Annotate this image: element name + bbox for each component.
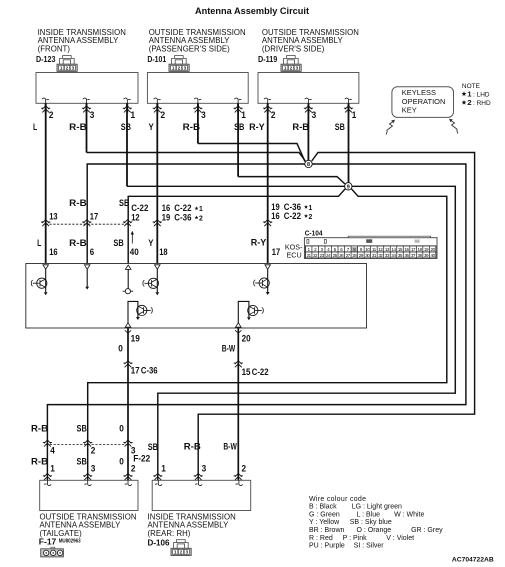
- svg-text:1: 1: [352, 110, 357, 120]
- svg-text:3: 3: [91, 463, 96, 473]
- svg-text:KEY: KEY: [402, 106, 417, 115]
- svg-text:9: 9: [347, 184, 350, 190]
- svg-text:2: 2: [242, 464, 247, 474]
- svg-text:OPERATION: OPERATION: [402, 97, 446, 106]
- svg-text:19: 19: [131, 333, 140, 343]
- svg-text:G : Green: G : Green: [309, 511, 340, 518]
- svg-text:C-22: C-22: [284, 211, 301, 221]
- svg-text:D-123: D-123: [36, 54, 56, 64]
- svg-text:L : Blue: L : Blue: [357, 511, 381, 518]
- svg-text:19: 19: [162, 212, 170, 222]
- svg-text:BR : Brown: BR : Brown: [309, 527, 345, 534]
- svg-text:R-Y: R-Y: [249, 122, 265, 132]
- svg-text:D-106: D-106: [148, 537, 170, 547]
- svg-text:17: 17: [131, 366, 140, 376]
- svg-text:0: 0: [118, 343, 123, 353]
- svg-text:SB: SB: [335, 122, 345, 132]
- svg-text:MU802963: MU802963: [59, 538, 81, 544]
- svg-text:F-22: F-22: [133, 454, 150, 464]
- svg-text:13: 13: [49, 211, 57, 221]
- svg-text:SB: SB: [119, 198, 130, 208]
- svg-text:C-36: C-36: [174, 212, 191, 222]
- svg-text:Y : Yellow: Y : Yellow: [309, 519, 340, 526]
- svg-text:1: 1: [309, 203, 313, 212]
- svg-text:P : Pink: P : Pink: [343, 535, 367, 542]
- svg-text:2: 2: [309, 212, 313, 221]
- svg-text:Y: Y: [148, 238, 153, 248]
- svg-text:3: 3: [312, 110, 317, 120]
- svg-text:R-B: R-B: [184, 441, 202, 451]
- svg-text:W : White: W : White: [394, 511, 424, 518]
- svg-text:12: 12: [131, 212, 139, 222]
- svg-text:V : Violet: V : Violet: [386, 535, 414, 542]
- svg-text:C-22: C-22: [252, 367, 269, 377]
- svg-text:17: 17: [90, 212, 98, 222]
- svg-text:16: 16: [49, 247, 57, 257]
- svg-text:R-Y: R-Y: [251, 238, 266, 248]
- svg-text:KEYLESS: KEYLESS: [402, 88, 436, 97]
- svg-text:R-B: R-B: [292, 122, 309, 132]
- svg-text:LG : Light green: LG : Light green: [352, 504, 402, 511]
- svg-text:2: 2: [199, 213, 203, 222]
- svg-text:6: 6: [90, 247, 94, 257]
- svg-text:2: 2: [91, 445, 96, 455]
- svg-text:Antenna Assembly Circuit: Antenna Assembly Circuit: [195, 6, 309, 16]
- svg-text:3: 3: [201, 110, 206, 120]
- svg-text:: LHD: : LHD: [473, 91, 490, 98]
- svg-text:(DRIVER'S SIDE): (DRIVER'S SIDE): [262, 44, 325, 53]
- svg-text:SB: SB: [113, 238, 124, 248]
- svg-text:SB: SB: [121, 122, 132, 132]
- svg-text:2: 2: [49, 110, 54, 120]
- svg-text:SB: SB: [234, 122, 245, 132]
- svg-text:1: 1: [50, 463, 55, 473]
- svg-text:15: 15: [242, 367, 251, 377]
- svg-text:(PASSENGER'S SIDE): (PASSENGER'S SIDE): [149, 44, 230, 53]
- svg-text:ECU: ECU: [287, 251, 302, 260]
- svg-text:Y: Y: [149, 122, 154, 132]
- svg-text:18: 18: [159, 247, 167, 257]
- svg-text:0: 0: [119, 456, 124, 466]
- svg-text:Wire colour code: Wire colour code: [309, 496, 366, 503]
- svg-text:40: 40: [130, 247, 139, 257]
- svg-text:4: 4: [50, 445, 55, 455]
- svg-text:1: 1: [131, 110, 136, 120]
- svg-text:SB: SB: [77, 423, 88, 433]
- svg-text:: RHD: : RHD: [473, 100, 491, 107]
- svg-text:8: 8: [307, 162, 310, 168]
- svg-text:SB: SB: [77, 456, 88, 466]
- svg-text:L: L: [33, 122, 38, 132]
- svg-text:F-17: F-17: [39, 536, 57, 546]
- svg-text:3: 3: [202, 464, 207, 474]
- svg-text:R-B: R-B: [31, 456, 49, 466]
- svg-text:B : Black: B : Black: [309, 504, 337, 511]
- svg-text:C-36: C-36: [141, 366, 158, 376]
- svg-text:2: 2: [131, 463, 136, 473]
- svg-text:D-101: D-101: [147, 54, 166, 64]
- svg-text:B-W: B-W: [223, 441, 237, 451]
- svg-text:R-B: R-B: [69, 238, 87, 248]
- svg-text:2: 2: [271, 110, 276, 120]
- svg-text:R-B: R-B: [69, 198, 87, 208]
- svg-text:2: 2: [467, 98, 471, 107]
- svg-text:SB: SB: [148, 442, 159, 452]
- svg-text:R : Red: R : Red: [309, 535, 333, 542]
- svg-text:17: 17: [272, 247, 280, 257]
- svg-text:SI : Silver: SI : Silver: [354, 543, 385, 550]
- svg-text:2: 2: [161, 110, 166, 120]
- svg-text:L: L: [37, 238, 42, 248]
- svg-text:B-W: B-W: [222, 343, 236, 353]
- svg-text:O : Orange: O : Orange: [357, 527, 392, 534]
- svg-text:1: 1: [199, 204, 203, 213]
- svg-text:(FRONT): (FRONT): [38, 44, 71, 53]
- svg-text:1: 1: [241, 110, 246, 120]
- svg-text:AC704722AB: AC704722AB: [452, 557, 494, 564]
- svg-text:20: 20: [242, 334, 251, 344]
- svg-text:GR : Grey: GR : Grey: [411, 527, 443, 534]
- svg-text:PU : Purple: PU : Purple: [309, 543, 345, 550]
- svg-text:1: 1: [161, 464, 166, 474]
- svg-text:SB : Sky blue: SB : Sky blue: [350, 519, 392, 526]
- svg-text:C-104: C-104: [305, 228, 324, 237]
- svg-text:3: 3: [90, 110, 95, 120]
- svg-text:R-B: R-B: [31, 423, 49, 433]
- svg-text:16: 16: [271, 211, 279, 221]
- svg-text:R-B: R-B: [69, 122, 87, 132]
- svg-text:0: 0: [119, 423, 124, 433]
- svg-text:D-119: D-119: [258, 54, 277, 64]
